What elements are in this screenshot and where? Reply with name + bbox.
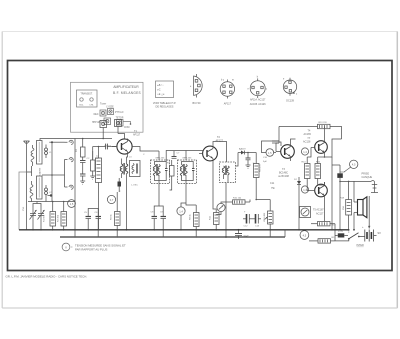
svg-text:1,4: 1,4 xyxy=(179,209,183,213)
outer block box xyxy=(71,82,144,132)
switch INT xyxy=(335,230,360,241)
capacitor C9 xyxy=(161,210,167,230)
bus line 1 xyxy=(19,229,349,231)
svg-text:AF127: AF127 xyxy=(216,140,224,143)
svg-text:75n: 75n xyxy=(271,187,276,190)
wire pot area xyxy=(216,202,227,215)
svg-text:DEC: DEC xyxy=(94,114,99,116)
wire long vertical x226 xyxy=(225,183,227,238)
oscillator coil box xyxy=(130,161,141,177)
value labels xyxy=(44,122,345,239)
T5 heatsink symbol xyxy=(300,207,311,218)
svg-text:R9 4,7k: R9 4,7k xyxy=(260,164,262,172)
svg-text:C4 10n: C4 10n xyxy=(104,146,112,148)
svg-text:▸C: ▸C xyxy=(158,89,161,92)
inner box transistors xyxy=(77,90,98,107)
wire T1 base row xyxy=(93,146,117,160)
svg-text:CASQUE: CASQUE xyxy=(362,176,373,179)
svg-text:m: m xyxy=(232,80,234,82)
svg-text:1,3: 1,3 xyxy=(303,189,307,192)
svg-text:AC127: AC127 xyxy=(316,213,324,216)
svg-text:B.F. MELANGES: B.F. MELANGES xyxy=(113,91,141,95)
resistor R17 xyxy=(309,239,335,243)
wire base row2 xyxy=(88,209,98,212)
wire row to T1 base xyxy=(46,202,75,205)
volume pot circle xyxy=(217,203,225,211)
transistor T5 xyxy=(311,182,327,199)
transistor T2 xyxy=(199,144,217,212)
transistor T4 xyxy=(311,139,327,157)
car antenna plug P3 xyxy=(65,175,74,189)
speaker xyxy=(354,181,367,229)
wires output pair xyxy=(307,127,341,230)
pinout diagrams xyxy=(190,74,298,106)
capacitor C3 xyxy=(80,166,86,181)
svg-text:HPP AB-A: HPP AB-A xyxy=(92,121,103,124)
diode D2 xyxy=(297,177,301,190)
scan page edge left xyxy=(1,32,3,309)
capacitor C5 xyxy=(86,211,92,230)
car antenna plug P2 xyxy=(65,158,74,175)
wire detector row xyxy=(236,152,257,166)
svg-text:1,5: 1,5 xyxy=(268,152,272,155)
bus junction dots xyxy=(32,229,355,238)
wire from socket 4 xyxy=(123,122,131,125)
svg-text:25Ω: 25Ω xyxy=(342,206,345,210)
wire mid join xyxy=(27,166,47,202)
svg-text:INTER: INTER xyxy=(357,244,364,247)
svg-text:AC128: AC128 xyxy=(303,140,311,143)
wire antenna top to T1 row xyxy=(40,139,75,141)
padder capacitor dark xyxy=(118,178,122,192)
svg-text:VOLUME: VOLUME xyxy=(264,212,266,222)
ground below detector xyxy=(246,163,251,168)
wire below MF1 xyxy=(154,183,196,230)
ferrite rod LW xyxy=(37,176,43,199)
capacitor C6 xyxy=(96,211,102,230)
volume potentiometer R12 xyxy=(265,200,274,230)
note voltage circle xyxy=(62,243,70,251)
svg-text:AF117: AF117 xyxy=(224,102,232,105)
block diagram box (amplificateur) xyxy=(71,82,144,132)
svg-text:GR. L.P.M. JANVIER MODELE RA: GR. L.P.M. JANVIER MODELE RADIO - CARS N… xyxy=(6,274,88,278)
scan page edge right xyxy=(396,32,398,309)
svg-text:R10 10k: R10 10k xyxy=(233,198,242,200)
svg-text:AC165. AC126: AC165. AC126 xyxy=(250,103,266,106)
svg-text:4,5: 4,5 xyxy=(303,233,307,237)
caption under frame xyxy=(6,274,88,278)
svg-text:PRISE: PRISE xyxy=(362,173,370,176)
electrolytic C16 dark xyxy=(337,169,346,230)
voltage circle below MF2 xyxy=(177,207,185,215)
svg-text:AMPLIFICATEUR: AMPLIFICATEUR xyxy=(113,85,139,89)
socket square 1 xyxy=(100,110,106,116)
svg-text:CADRE: CADRE xyxy=(38,167,41,175)
resistor R13 top rail xyxy=(318,124,331,128)
svg-text:CTN: CTN xyxy=(338,231,343,233)
car antenna plug P1 xyxy=(65,140,74,144)
svg-text:R13 220: R13 220 xyxy=(319,122,328,124)
svg-text:C11: C11 xyxy=(270,182,275,185)
node dot A xyxy=(52,201,65,203)
detector diode D1 xyxy=(238,151,248,155)
wire T2 collector top xyxy=(213,142,227,163)
link turns top xyxy=(45,145,53,159)
svg-text:Tuner: Tuner xyxy=(100,103,106,106)
IF transformer MF1 xyxy=(151,160,170,184)
svg-text:R1 80k: R1 80k xyxy=(44,214,46,222)
oscillator transformer R5 xyxy=(96,158,102,230)
svg-text:DE REGLAGES: DE REGLAGES xyxy=(156,106,174,109)
electrolytic C13 xyxy=(252,214,261,224)
svg-text:R8 1k: R8 1k xyxy=(190,213,192,220)
socket square 4 xyxy=(117,120,124,127)
wire LP diagonal xyxy=(332,165,351,172)
resistor R16 xyxy=(311,222,335,226)
transistor T3 xyxy=(276,143,294,161)
capacitor C4 xyxy=(106,144,108,150)
resistor R8 xyxy=(194,205,200,230)
svg-text:AF114. AC127: AF114. AC127 xyxy=(250,98,266,101)
bottom note xyxy=(62,243,126,252)
voltage circle 1.5V xyxy=(68,200,76,208)
socket square 3 xyxy=(104,118,111,125)
svg-text:MF2 455: MF2 455 xyxy=(183,158,192,160)
scan page edge top xyxy=(2,31,397,33)
svg-text:CHL: CHL xyxy=(89,105,94,107)
wire down arrow to battery xyxy=(368,196,370,229)
svg-text:OC139: OC139 xyxy=(286,99,295,102)
svg-text:▸B ↑↓: ▸B ↑↓ xyxy=(158,84,164,87)
wire top row T1 xyxy=(75,138,112,140)
capacitor C10 xyxy=(246,153,251,164)
svg-text:LYCEE: LYCEE xyxy=(106,107,114,109)
variable capacitor CV1 xyxy=(30,207,37,222)
jack symbol xyxy=(339,181,378,193)
svg-text:ou BC198: ou BC198 xyxy=(278,175,289,178)
resistor R4 xyxy=(91,151,96,176)
voltage circle T5 xyxy=(301,186,308,193)
svg-text:0,7: 0,7 xyxy=(110,198,114,202)
svg-text:AA119: AA119 xyxy=(239,148,246,151)
svg-text:AC165: AC165 xyxy=(304,133,312,136)
link box 1 xyxy=(100,121,107,139)
svg-text:MF1 455: MF1 455 xyxy=(156,158,165,160)
resistor R1 xyxy=(50,204,56,230)
svg-text:1,4: 1,4 xyxy=(303,151,307,154)
pinout circle OC139 xyxy=(283,78,298,103)
ground g2 xyxy=(90,176,95,179)
variable capacitor CV2 xyxy=(38,207,45,222)
resistor R11 xyxy=(214,212,220,230)
svg-text:V: V xyxy=(65,245,67,249)
svg-text:PAR RAPPORT AU PLUS: PAR RAPPORT AU PLUS xyxy=(75,248,107,252)
voltage circle LM xyxy=(300,231,309,240)
wire link rail xyxy=(42,141,65,201)
socket square 2 xyxy=(108,109,114,115)
wire to T1 emitter xyxy=(74,139,76,230)
svg-text:▹E △e: ▹E △e xyxy=(158,93,166,96)
wire MF1 to T2 xyxy=(166,151,203,162)
osc coupling coil pair xyxy=(120,159,128,179)
bus line 2 xyxy=(60,230,285,237)
svg-text:BCY40: BCY40 xyxy=(193,102,202,105)
svg-text:R2 30k: R2 30k xyxy=(58,214,60,222)
wire T3 collector up xyxy=(291,139,296,143)
resistor R10 xyxy=(227,200,250,204)
border frame xyxy=(8,61,393,271)
resistor R6 xyxy=(115,192,121,230)
pinout D-shape BCY40 xyxy=(190,74,202,105)
driver transformer MF3 xyxy=(220,162,236,183)
wire T3 base xyxy=(262,141,282,153)
voltage circle LP xyxy=(350,160,358,168)
wire T1 collector to MF1 xyxy=(132,147,159,152)
link turns bottom xyxy=(45,185,53,198)
svg-text:R6 5k: R6 5k xyxy=(111,213,113,220)
electrolytic C12 xyxy=(243,211,252,224)
components between MF xyxy=(170,160,175,183)
svg-text:5µF: 5µF xyxy=(263,161,267,163)
tiny symbol right in inner box xyxy=(90,98,93,101)
capacitor C15 xyxy=(272,141,279,143)
svg-text:4,5: 4,5 xyxy=(352,163,356,167)
ground g1 xyxy=(80,181,85,184)
ferrite rod MW xyxy=(37,141,43,165)
gang wires xyxy=(33,202,41,230)
svg-text:T5 AC187: T5 AC187 xyxy=(313,209,324,212)
svg-text:L.OSC: L.OSC xyxy=(131,185,138,187)
top rail xyxy=(276,127,342,152)
capacitor C8 xyxy=(152,210,158,230)
IF transformer MF2 xyxy=(178,160,197,184)
svg-text:9V: 9V xyxy=(378,231,382,235)
pinout circle AF115 group xyxy=(248,77,269,107)
coil L2 xyxy=(30,181,33,202)
svg-text:COM: COM xyxy=(124,127,129,129)
AGC resistor R3 xyxy=(81,139,86,161)
wire lm xyxy=(299,190,341,241)
transistor T1 xyxy=(112,139,132,231)
capacitor C2 xyxy=(80,161,86,167)
capacitor C7 xyxy=(172,151,177,158)
junction blob xyxy=(48,194,53,196)
svg-text:PTH A.F: PTH A.F xyxy=(115,111,124,114)
svg-text:1,5: 1,5 xyxy=(70,202,74,206)
resistor R2 xyxy=(61,204,67,230)
bias resistor R15 xyxy=(315,157,321,185)
bus stubs xyxy=(74,230,270,238)
voltage circle 0.7 xyxy=(107,195,115,203)
wire det to pot xyxy=(250,199,270,202)
thermistor CTN xyxy=(335,231,348,238)
svg-text:AF117: AF117 xyxy=(133,134,141,137)
battery 9V xyxy=(359,230,377,242)
link box 2 xyxy=(115,120,125,139)
legend box xyxy=(153,81,177,109)
voltage circle T4 xyxy=(301,148,308,155)
bias resistor R14 xyxy=(305,157,311,185)
svg-text:TRANSIST.: TRANSIST. xyxy=(80,93,93,96)
pinout circle AF117 xyxy=(220,80,234,106)
coil L1 xyxy=(31,145,34,166)
capacitor C14 below bus xyxy=(235,229,249,239)
antenna xyxy=(19,141,30,230)
resistor R9 xyxy=(254,153,260,200)
resistor R18 speaker xyxy=(346,181,352,230)
voltage circle T3 base xyxy=(266,149,274,157)
scan page edge bottom xyxy=(2,307,397,309)
tiny symbol left in inner box xyxy=(80,98,83,101)
